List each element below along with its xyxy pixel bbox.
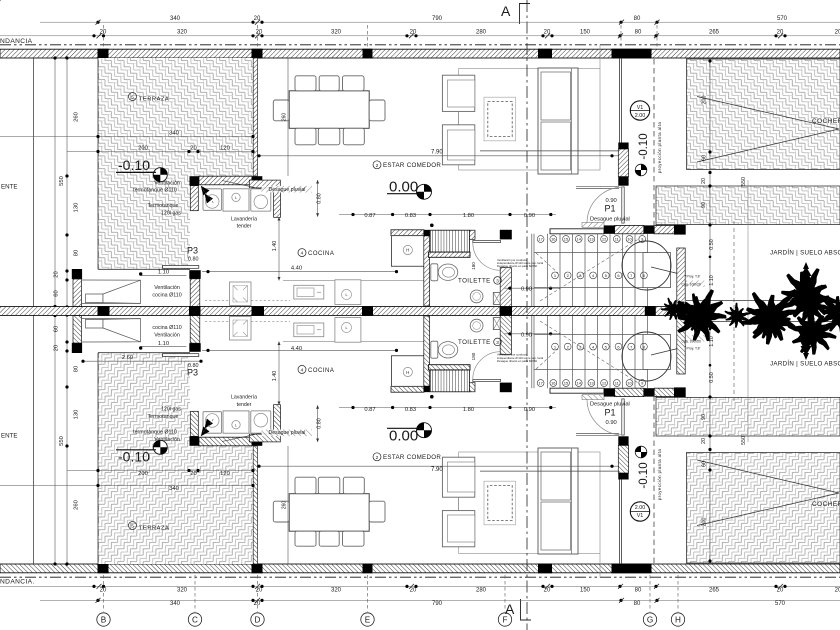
- svg-text:0.90: 0.90: [524, 407, 535, 413]
- svg-text:180: 180: [471, 262, 476, 270]
- svg-text:JARDÍN | SUELO ABSOR: JARDÍN | SUELO ABSOR: [770, 361, 840, 368]
- svg-text:TOILETTE: TOILETTE: [458, 278, 491, 285]
- svg-text:1.10: 1.10: [709, 275, 715, 286]
- svg-text:90: 90: [701, 202, 707, 208]
- dim ext 550: [747, 180, 749, 311]
- stair wall hatch 1: [615, 225, 644, 233]
- svg-text:B: B: [101, 615, 107, 624]
- svg-text:1.40: 1.40: [272, 241, 278, 252]
- svg-text:790: 790: [432, 16, 443, 22]
- terraza label top: [129, 93, 170, 532]
- center wall black F: [500, 306, 513, 311]
- center wall black C: [189, 306, 201, 311]
- door P1 arc: [587, 187, 623, 223]
- svg-text:20: 20: [190, 471, 196, 477]
- svg-text:17: 17: [538, 381, 543, 386]
- svg-text:20: 20: [777, 30, 784, 36]
- svg-text:0.00: 0.00: [389, 428, 418, 445]
- wall D vertical (dining left): [253, 58, 257, 176]
- svg-text:20: 20: [544, 30, 551, 36]
- counter dashed: [205, 299, 290, 301]
- svg-text:proyección planta alta: proyección planta alta: [657, 122, 662, 174]
- dim 1.40 kitchen: [278, 217, 280, 281]
- svg-text:340: 340: [169, 131, 179, 137]
- V1 labels: [635, 105, 646, 519]
- svg-text:20: 20: [410, 588, 417, 594]
- laundry door wedge: [201, 186, 210, 196]
- center wall black D: [252, 306, 265, 311]
- chair left: [273, 100, 289, 121]
- svg-text:P3: P3: [187, 246, 198, 256]
- svg-text:0.83: 0.83: [405, 407, 416, 413]
- svg-text:13: 13: [589, 237, 594, 242]
- svg-text:Ventilación: Ventilación: [154, 437, 180, 443]
- svg-text:340: 340: [170, 16, 181, 22]
- terraza dim 200-20-120 line: [67, 151, 253, 153]
- svg-text:340: 340: [170, 601, 181, 607]
- svg-text:5: 5: [131, 95, 134, 101]
- svg-text:Cga. 100x20: Cga. 100x20: [682, 340, 701, 344]
- entry gate lintel black: [612, 49, 652, 59]
- column E top: [363, 49, 373, 59]
- svg-text:1.10: 1.10: [158, 341, 169, 347]
- svg-text:Lavandería: Lavandería: [231, 216, 257, 222]
- tiny vent note top: [497, 258, 544, 363]
- terraza hatch lower: [98, 176, 190, 269]
- svg-text:320: 320: [331, 588, 342, 594]
- svg-text:20: 20: [835, 588, 840, 594]
- svg-text:0.83: 0.83: [405, 213, 416, 219]
- estar comedor labels: [373, 161, 441, 461]
- top street wall band: [0, 49, 840, 58]
- svg-text:0.50: 0.50: [709, 372, 715, 383]
- svg-text:60: 60: [54, 290, 60, 296]
- kitchen sink: [294, 285, 324, 299]
- svg-text:10: 10: [627, 237, 632, 242]
- svg-text:E: E: [365, 615, 371, 624]
- svg-text:1.80: 1.80: [463, 213, 474, 219]
- svg-text:tender: tender: [237, 224, 252, 230]
- svg-text:20: 20: [701, 178, 707, 184]
- stair block over toilette: [430, 230, 469, 252]
- svg-text:1.40: 1.40: [272, 371, 278, 382]
- svg-text:260: 260: [74, 112, 80, 122]
- kitchen front wall black L: [72, 269, 82, 279]
- cocina labels: [298, 249, 334, 374]
- kitchen counter edge: [283, 279, 424, 281]
- toilette left wall: [424, 230, 430, 306]
- svg-text:320: 320: [331, 30, 342, 36]
- toilette right wall: [500, 268, 511, 307]
- interior dim row labels: [291, 213, 535, 413]
- stair numbers top unit row 9-17: [537, 236, 647, 387]
- svg-text:1.10: 1.10: [158, 270, 169, 276]
- svg-text:2.00: 2.00: [635, 113, 646, 119]
- svg-text:200: 200: [702, 518, 708, 527]
- svg-text:14: 14: [576, 237, 581, 242]
- svg-text:4.40: 4.40: [291, 266, 302, 272]
- stove: [335, 280, 361, 305]
- svg-text:0.80: 0.80: [188, 257, 199, 263]
- note strike hatch: [681, 281, 705, 288]
- svg-text:ESTAR COMEDOR: ESTAR COMEDOR: [383, 454, 441, 461]
- svg-text:280: 280: [476, 30, 487, 36]
- svg-text:Cga. 100x20: Cga. 100x20: [682, 283, 701, 287]
- coffee table: [484, 97, 516, 141]
- 2.60 dim line (bottom unit only): [83, 360, 201, 362]
- svg-text:Proy. T.8': Proy. T.8': [687, 275, 701, 279]
- svg-text:Desague directo en patio 60X60: Desague directo en patio 60X60: [497, 359, 537, 363]
- door P3 leaf: [163, 266, 199, 269]
- ventilacion cocina labels: [152, 285, 181, 339]
- level symbol terraza: [153, 168, 167, 182]
- level symbol 0.00 estar: [417, 184, 432, 199]
- chairs bottom: [295, 128, 316, 145]
- svg-text:13: 13: [589, 381, 594, 386]
- toilette sink: [470, 290, 483, 303]
- top dim row 2: [100, 30, 840, 36]
- stair right wall lower: [677, 248, 685, 307]
- cochera hatch: [687, 59, 840, 170]
- svg-text:COCINA: COCINA: [308, 368, 334, 374]
- interior dim row: [339, 214, 556, 216]
- svg-text:TERRAZA: TERRAZA: [139, 526, 169, 532]
- wc bowl: [438, 264, 458, 280]
- pine tree top: [798, 262, 814, 291]
- stair up dashes: [540, 238, 640, 301]
- level symbol porch: [635, 164, 647, 176]
- svg-text:12: 12: [602, 237, 607, 242]
- left dim line inner: [66, 58, 68, 311]
- svg-text:150: 150: [580, 30, 591, 36]
- hall line: [599, 45, 601, 69]
- left dim line outer: [54, 58, 56, 311]
- terraza dim 340 line: [0, 136, 253, 138]
- svg-text:H: H: [406, 248, 409, 253]
- svg-text:80: 80: [635, 30, 642, 36]
- terraza edge left: [97, 58, 99, 269]
- svg-text:Lavandería: Lavandería: [231, 395, 257, 401]
- svg-text:20: 20: [777, 588, 784, 594]
- terraza dims labels: [122, 131, 230, 492]
- svg-text:L: L: [235, 423, 237, 427]
- laundry tub 1: [203, 189, 222, 211]
- svg-text:120: 120: [220, 146, 230, 152]
- svg-text:20: 20: [54, 345, 60, 351]
- svg-text:4.40: 4.40: [291, 346, 302, 352]
- svg-text:NDANCIA: NDANCIA: [0, 38, 33, 45]
- svg-text:termotanque Ø110: termotanque Ø110: [133, 188, 177, 194]
- svg-text:ENTE: ENTE: [1, 184, 18, 191]
- svg-text:JARDÍN | SUELO ABSOR: JARDÍN | SUELO ABSOR: [770, 250, 840, 257]
- svg-text:Termotanque: Termotanque: [148, 203, 179, 209]
- stair landing: [643, 253, 671, 288]
- svg-text:0.00: 0.00: [389, 178, 418, 195]
- toilette black col F top: [500, 230, 512, 240]
- svg-text:-0.10: -0.10: [118, 157, 150, 173]
- svg-text:COCHERA: COCHERA: [812, 501, 840, 508]
- svg-text:Desague pluvial: Desague pluvial: [269, 187, 306, 193]
- kitchen wall below P3: [190, 279, 200, 307]
- stair wall black H: [674, 225, 686, 235]
- stair mid lines: [534, 252, 648, 254]
- stair numbers bottom unit: [552, 343, 648, 350]
- svg-text:0.50: 0.50: [709, 239, 715, 250]
- bottom dim row 2: [100, 588, 840, 594]
- ventilacion termotanque labels: [133, 180, 181, 443]
- tree palm 1: [0, 0, 1, 1]
- svg-text:Ventilación: Ventilación: [154, 180, 180, 186]
- vent funnel cocina: [86, 294, 104, 303]
- svg-text:V1: V1: [637, 105, 644, 111]
- porch wall: [618, 149, 628, 177]
- dim line 7.90: [257, 155, 620, 157]
- svg-text:termotanque Ø110: termotanque Ø110: [133, 430, 177, 436]
- terraza bottom edge: [98, 268, 190, 270]
- proy t8 notes: [682, 275, 701, 351]
- svg-text:Termotanque: Termotanque: [148, 414, 179, 420]
- svg-text:cocina Ø110: cocina Ø110: [152, 293, 181, 299]
- svg-text:14: 14: [576, 381, 581, 386]
- glass wall living east: [618, 58, 620, 149]
- chairs top: [295, 76, 316, 91]
- laundry top wall black R: [252, 176, 262, 186]
- svg-text:60: 60: [702, 155, 708, 161]
- laundry top wall black L: [190, 176, 200, 186]
- fridge wall piece: [391, 230, 424, 236]
- door P3 jamb black: [189, 270, 200, 279]
- svg-text:Desague pluvial: Desague pluvial: [590, 216, 630, 222]
- svg-text:16: 16: [551, 237, 556, 242]
- svg-text:790: 790: [432, 601, 443, 607]
- desague gutter strip: [582, 222, 604, 227]
- svg-text:15: 15: [564, 381, 569, 386]
- svg-text:L: L: [346, 326, 348, 330]
- front fence line left: [33, 58, 35, 307]
- svg-text:-0.10: -0.10: [118, 449, 150, 465]
- dim tick slashes: [96, 20, 784, 603]
- svg-text:5: 5: [131, 524, 134, 530]
- dining table: [289, 91, 369, 129]
- left vertical dims top: [54, 112, 80, 510]
- svg-text:2.00: 2.00: [635, 505, 646, 511]
- svg-text:TOILETTE: TOILETTE: [458, 339, 491, 346]
- stair wall black 1: [604, 225, 615, 233]
- svg-text:0.90: 0.90: [521, 332, 532, 338]
- svg-text:20: 20: [256, 588, 263, 594]
- dim 0.90 toilette line: [504, 287, 560, 289]
- stair treads: [548, 234, 648, 307]
- P1 labels: [590, 198, 630, 426]
- dishwasher: [230, 282, 252, 306]
- svg-text:90: 90: [701, 414, 707, 420]
- driveway hatch band: [656, 186, 840, 225]
- svg-text:550: 550: [59, 176, 65, 186]
- svg-text:260: 260: [74, 500, 80, 510]
- svg-text:0.80: 0.80: [317, 193, 323, 204]
- svg-text:H: H: [675, 615, 681, 624]
- living rug outline: [459, 69, 600, 170]
- appliance letters: [235, 196, 409, 428]
- svg-text:7.90: 7.90: [431, 467, 443, 473]
- svg-text:20: 20: [835, 30, 840, 36]
- section line A-A: [526, 0, 528, 630]
- svg-text:L: L: [346, 293, 348, 297]
- center wall black E: [362, 306, 373, 311]
- armchair 1: [442, 75, 474, 111]
- laundry right wall: [274, 188, 281, 217]
- svg-text:G: G: [647, 615, 653, 624]
- svg-text:P3: P3: [187, 368, 198, 378]
- svg-text:320: 320: [177, 588, 188, 594]
- column B top: [98, 49, 109, 59]
- svg-text:20: 20: [254, 16, 261, 22]
- svg-text:0.90: 0.90: [606, 420, 617, 426]
- kitchen front wall left: [73, 279, 81, 307]
- svg-text:265: 265: [709, 588, 720, 594]
- svg-text:V1: V1: [637, 513, 644, 519]
- svg-text:265: 265: [709, 30, 720, 36]
- svg-text:150: 150: [580, 588, 591, 594]
- laundry corner piece: [249, 180, 280, 188]
- svg-text:7.90: 7.90: [431, 149, 443, 155]
- svg-text:ESTAR COMEDOR: ESTAR COMEDOR: [383, 162, 441, 169]
- svg-text:80: 80: [74, 250, 80, 256]
- dim 0.80 laundry: [317, 180, 319, 217]
- laundry left wall: [190, 186, 198, 211]
- toilette vanity: [493, 292, 500, 304]
- svg-text:0.90: 0.90: [524, 213, 535, 219]
- svg-text:17: 17: [538, 237, 543, 242]
- svg-text:80: 80: [74, 366, 80, 372]
- center party wall overlay (uniform hatch): [0, 305, 686, 316]
- svg-text:Desague pluvial: Desague pluvial: [269, 430, 306, 436]
- laundry washer L: [223, 189, 249, 211]
- svg-text:12: 12: [602, 381, 607, 386]
- svg-text:1.10: 1.10: [709, 336, 715, 347]
- svg-text:Ventilación: Ventilación: [154, 333, 180, 339]
- svg-text:0.90: 0.90: [521, 287, 532, 293]
- jardin dashed line: [733, 221, 735, 311]
- property line street: [0, 44, 840, 46]
- pine tree bottom: [798, 331, 814, 360]
- svg-text:-0.10: -0.10: [638, 462, 650, 488]
- svg-text:4: 4: [301, 368, 304, 374]
- svg-text:130: 130: [74, 410, 80, 420]
- svg-text:340: 340: [169, 486, 179, 492]
- svg-text:tender: tender: [237, 402, 252, 408]
- svg-text:180: 180: [471, 352, 476, 360]
- svg-text:20: 20: [544, 588, 551, 594]
- svg-text:15: 15: [564, 237, 569, 242]
- svg-text:550: 550: [59, 436, 65, 446]
- door P1 leaf: [622, 187, 624, 223]
- stair wall hatch 2: [654, 225, 676, 233]
- dim 1.10 P3: [141, 274, 187, 276]
- svg-text:3: 3: [496, 340, 499, 345]
- svg-text:16: 16: [551, 381, 556, 386]
- terraza hatch upper: [98, 58, 253, 176]
- svg-text:570: 570: [775, 601, 786, 607]
- svg-text:200: 200: [138, 146, 148, 152]
- svg-text:120l gas: 120l gas: [161, 211, 181, 217]
- center wall black H end: [677, 305, 687, 311]
- svg-text:Ventilación: Ventilación: [154, 285, 180, 291]
- toilette labels: [458, 277, 501, 346]
- center wall black G: [645, 306, 656, 311]
- svg-text:1.80: 1.80: [463, 407, 474, 413]
- right dims rot labels: [701, 96, 747, 527]
- svg-text:0.87: 0.87: [364, 407, 375, 413]
- svg-text:COCINA: COCINA: [308, 251, 334, 257]
- svg-text:60: 60: [54, 326, 60, 332]
- svg-text:TERRAZA: TERRAZA: [139, 97, 169, 103]
- stair circle: [622, 241, 671, 290]
- bottom dim row 1: [170, 601, 786, 607]
- svg-text:570: 570: [777, 16, 788, 22]
- svg-text:120l gas: 120l gas: [161, 406, 181, 412]
- svg-text:20: 20: [701, 438, 707, 444]
- grid letters: [97, 613, 685, 626]
- stair left edge: [531, 234, 533, 307]
- svg-text:2.60: 2.60: [122, 355, 133, 361]
- laundry tub 2: [251, 189, 271, 211]
- svg-text:260: 260: [282, 113, 288, 122]
- svg-text:-0.10: -0.10: [638, 133, 650, 159]
- svg-text:ENTE: ENTE: [1, 433, 18, 440]
- column D top: [252, 49, 263, 59]
- svg-text:P1: P1: [605, 204, 616, 214]
- center party wall: [0, 307, 686, 311]
- svg-text:80: 80: [634, 16, 641, 22]
- armchair 2: [442, 125, 474, 165]
- svg-text:80: 80: [634, 601, 641, 607]
- svg-text:proyección planta alta: proyección planta alta: [657, 449, 662, 501]
- svg-text:60: 60: [702, 461, 708, 467]
- stair block base wall: [428, 252, 470, 257]
- svg-text:H: H: [406, 370, 409, 375]
- toilette door leaf: [473, 241, 501, 243]
- stair top lintel: [550, 229, 604, 234]
- svg-text:2: 2: [376, 455, 379, 461]
- svg-text:NDANCIA.: NDANCIA.: [0, 579, 35, 586]
- svg-text:A: A: [501, 3, 511, 19]
- cochera wedge: [697, 97, 839, 163]
- desague strike laundry: [262, 186, 313, 193]
- desague pluvial struck labels: [269, 187, 306, 436]
- jardin path line: [686, 300, 840, 302]
- V1 symbol: [630, 101, 649, 120]
- svg-text:P1: P1: [605, 407, 616, 417]
- stair wall black 2: [644, 225, 654, 233]
- lavanderia labels: [231, 216, 257, 407]
- stair arrow to note: [651, 267, 686, 276]
- center wall black B: [98, 306, 110, 311]
- svg-text:280: 280: [476, 588, 487, 594]
- svg-text:0.87: 0.87: [364, 213, 375, 219]
- svg-text:20: 20: [190, 146, 196, 152]
- svg-text:L: L: [235, 196, 237, 200]
- svg-text:2: 2: [376, 163, 379, 169]
- svg-text:0.80: 0.80: [317, 418, 323, 429]
- svg-text:Proy. T.8': Proy. T.8': [687, 347, 701, 351]
- svg-text:4: 4: [301, 251, 304, 257]
- wall piece right of block: [470, 230, 476, 239]
- dim line 260 dining: [287, 58, 289, 176]
- porch slab lines: [576, 185, 619, 187]
- dim 4.40: [202, 271, 397, 273]
- svg-text:cocina Ø110: cocina Ø110: [152, 325, 181, 331]
